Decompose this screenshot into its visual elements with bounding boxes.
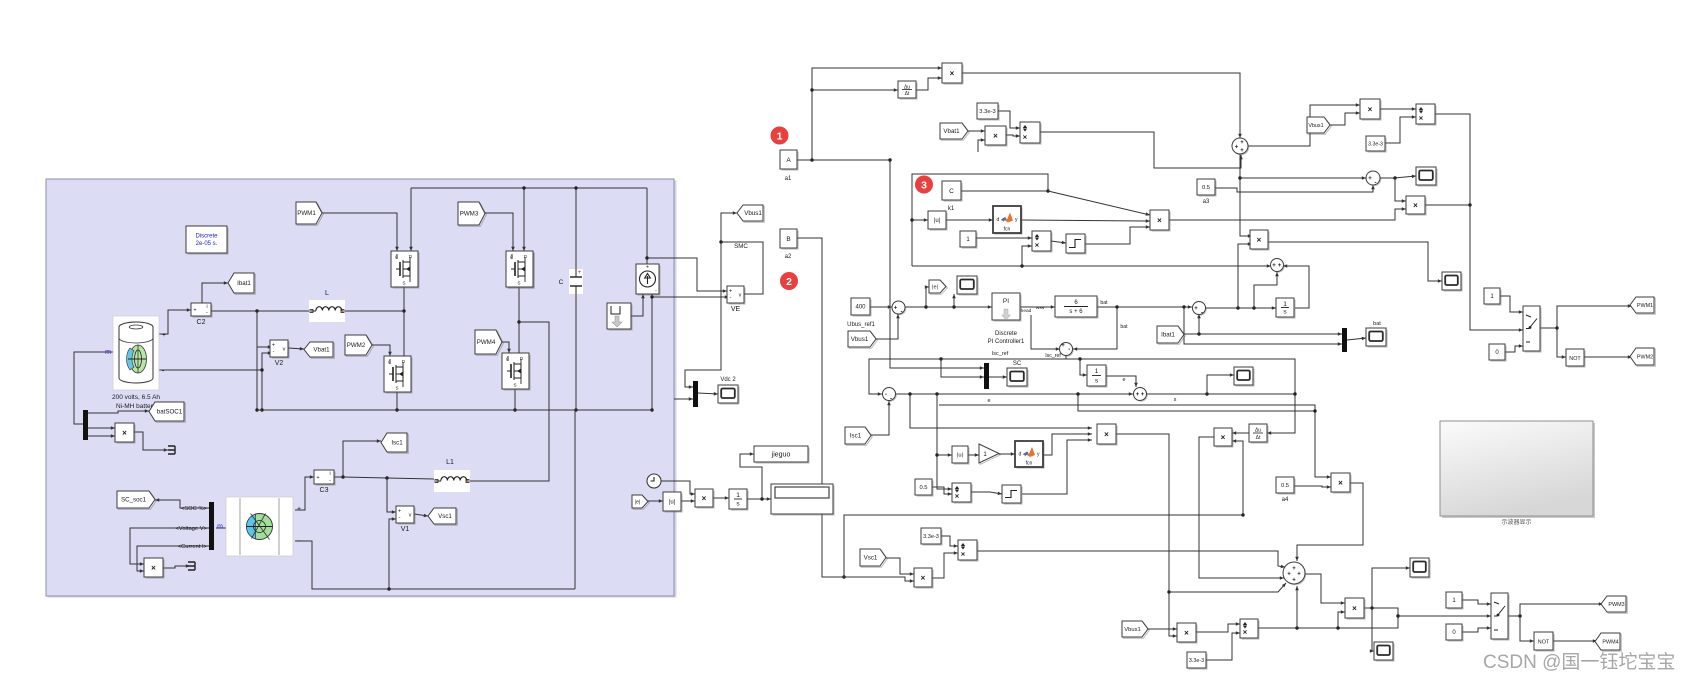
svg-text:L: L (325, 290, 329, 297)
svg-text:+: + (578, 270, 582, 276)
svg-text:+: + (1240, 148, 1244, 154)
svg-text:+: + (1194, 306, 1198, 312)
svg-text:CSDN @国一钰坨宝宝: CSDN @国一钰坨宝宝 (1483, 651, 1675, 673)
svg-text:×: × (702, 494, 707, 503)
svg-text:-: - (399, 515, 401, 521)
svg-text:0.5: 0.5 (1202, 185, 1210, 191)
svg-text:a3: a3 (1203, 199, 1210, 205)
svg-text:PWM2: PWM2 (347, 342, 366, 349)
svg-text:×: × (1368, 105, 1373, 114)
svg-text:+: + (1141, 392, 1145, 398)
svg-text:bat: bat (1100, 300, 1108, 306)
svg-text:×: × (1243, 628, 1248, 637)
svg-text:0.5: 0.5 (919, 485, 927, 491)
svg-text:<Current I>: <Current I> (178, 544, 208, 550)
svg-text:0.5: 0.5 (1281, 483, 1289, 489)
svg-text:d: d (997, 217, 1000, 223)
svg-text:-: - (1068, 347, 1070, 353)
svg-text:1: 1 (1283, 301, 1287, 308)
svg-text:×: × (1221, 433, 1226, 442)
svg-text:i: i (329, 471, 330, 477)
svg-text:i: i (206, 304, 207, 310)
svg-text:PWM2: PWM2 (1637, 354, 1653, 360)
svg-text:C2: C2 (197, 319, 206, 326)
svg-text:a1: a1 (785, 176, 792, 182)
svg-text:+: + (297, 506, 301, 513)
svg-text:+: + (646, 265, 649, 271)
svg-text:示波器显示: 示波器显示 (1501, 518, 1531, 526)
svg-text:+: + (162, 333, 166, 339)
svg-text:A: A (786, 157, 791, 164)
svg-text:×: × (1257, 236, 1262, 245)
svg-text:PWM1: PWM1 (297, 210, 316, 217)
svg-text:|e|: |e| (635, 499, 640, 505)
svg-text:+: + (272, 343, 275, 349)
svg-text:d: d (1019, 452, 1022, 458)
svg-text:PWM3: PWM3 (1608, 602, 1624, 608)
svg-text:s + 6: s + 6 (1069, 309, 1083, 315)
svg-text:200 volts, 6.5 Ah: 200 volts, 6.5 Ah (112, 394, 160, 401)
svg-text:a2: a2 (785, 254, 792, 260)
svg-text:3.3e-3: 3.3e-3 (1189, 658, 1204, 664)
svg-text:-: - (890, 396, 892, 402)
svg-text:×: × (122, 429, 127, 438)
svg-text:×: × (993, 132, 998, 141)
svg-text:3.3e-3: 3.3e-3 (1368, 141, 1383, 147)
svg-text:×: × (950, 69, 955, 78)
svg-text:-: - (885, 392, 887, 398)
svg-text:+: + (1061, 343, 1065, 349)
svg-text:PWM4: PWM4 (477, 339, 496, 346)
svg-text:bat: bat (1120, 324, 1128, 330)
svg-text:Vsc1: Vsc1 (864, 555, 878, 562)
svg-text:2: 2 (786, 276, 792, 288)
svg-text:k1: k1 (948, 206, 955, 212)
svg-text:fcn: fcn (1026, 461, 1033, 467)
svg-text:+: + (1292, 566, 1296, 572)
svg-text:NOT: NOT (1569, 356, 1581, 362)
svg-text:s: s (1174, 397, 1177, 403)
svg-text:VE: VE (731, 306, 741, 313)
svg-text:Vbus1: Vbus1 (1124, 627, 1140, 633)
svg-text:×: × (1419, 114, 1424, 123)
svg-text:Ibat1: Ibat1 (237, 280, 251, 287)
svg-text:Isc_ref: Isc_ref (992, 351, 1009, 357)
svg-text:wss: wss (1036, 306, 1045, 311)
svg-text:+: + (1235, 145, 1239, 151)
svg-text:<SOC %>: <SOC %> (181, 506, 208, 512)
svg-text:+: + (729, 289, 732, 295)
svg-text:Ubus_ref1: Ubus_ref1 (847, 322, 875, 328)
svg-text:Isc1: Isc1 (850, 433, 862, 440)
svg-text:S: S (395, 386, 398, 391)
svg-text:L1: L1 (446, 459, 454, 466)
svg-text:+: + (1292, 578, 1296, 584)
svg-text:Vsc1: Vsc1 (438, 513, 452, 520)
svg-text:-: - (1375, 181, 1377, 187)
svg-text:bat: bat (1373, 321, 1381, 327)
svg-text:×: × (1023, 133, 1028, 142)
svg-text:1: 1 (777, 130, 783, 142)
svg-text:+: + (1287, 572, 1291, 578)
svg-text:m: m (105, 349, 111, 356)
svg-text:Vbus1: Vbus1 (1308, 123, 1323, 129)
svg-text:PI: PI (1003, 298, 1009, 305)
svg-text:Isc_ref: Isc_ref (1045, 353, 1061, 359)
svg-text:+: + (1240, 140, 1244, 146)
svg-text:Δt: Δt (905, 91, 910, 97)
svg-text:+: + (1278, 263, 1282, 269)
svg-text:×: × (1352, 604, 1357, 613)
svg-text:NOT: NOT (1538, 639, 1550, 645)
svg-text:m: m (217, 524, 223, 531)
svg-text:-: - (206, 310, 208, 316)
svg-text:3.3e-3: 3.3e-3 (923, 534, 939, 540)
svg-text:Ibat1: Ibat1 (1161, 332, 1175, 339)
svg-text:SMC: SMC (734, 243, 748, 250)
svg-text:Isc1: Isc1 (391, 440, 403, 447)
svg-text:×: × (1035, 241, 1040, 250)
svg-text:e: e (987, 398, 990, 404)
svg-text:×: × (961, 550, 966, 559)
svg-text:1: 1 (983, 451, 987, 458)
svg-text:1: 1 (736, 492, 740, 499)
svg-text:Vbus1: Vbus1 (744, 210, 762, 217)
svg-text:Vbat1: Vbat1 (943, 128, 960, 135)
svg-text:+: + (316, 475, 319, 481)
svg-text:fcn: fcn (1004, 227, 1011, 233)
svg-text:+: + (1272, 263, 1276, 269)
svg-text:×: × (1157, 216, 1162, 225)
svg-text:+: + (1297, 572, 1301, 578)
svg-text:<Voltage V>: <Voltage V> (175, 526, 207, 532)
svg-text:-: - (901, 310, 903, 316)
svg-text:×: × (1338, 479, 1343, 488)
svg-text:×: × (921, 574, 926, 583)
svg-text:Vbat1: Vbat1 (313, 347, 330, 354)
svg-text:PWM1: PWM1 (1637, 303, 1653, 309)
svg-text:jieguo: jieguo (771, 451, 791, 458)
svg-text:×: × (955, 492, 960, 501)
svg-text:v: v (739, 293, 742, 299)
svg-text:head: head (1021, 308, 1032, 314)
svg-text:|u|: |u| (957, 453, 963, 459)
svg-text:Discrete: Discrete (995, 331, 1018, 337)
svg-text:S: S (513, 383, 516, 388)
svg-text:B: B (786, 236, 790, 243)
svg-text:-: - (1201, 310, 1203, 316)
svg-text:×: × (1184, 629, 1189, 638)
svg-text:V1: V1 (401, 526, 410, 533)
svg-text:|u|: |u| (669, 500, 676, 506)
svg-text:+: + (193, 308, 196, 314)
svg-text:|u|: |u| (934, 218, 941, 224)
svg-text:|e|: |e| (932, 284, 938, 290)
svg-text:1: 1 (1095, 368, 1099, 375)
svg-text:2e-05 s.: 2e-05 s. (196, 241, 218, 247)
svg-text:3.3e-3: 3.3e-3 (979, 109, 995, 115)
svg-text:S: S (517, 281, 520, 286)
svg-text:-: - (273, 349, 275, 355)
svg-text:SC: SC (1013, 361, 1022, 367)
svg-text:Vbus1: Vbus1 (851, 336, 869, 343)
svg-text:Δt: Δt (1256, 435, 1261, 441)
svg-text:Vdc 2: Vdc 2 (720, 377, 736, 383)
svg-text:SC_soc1: SC_soc1 (121, 497, 147, 504)
svg-text:Discrete: Discrete (195, 234, 218, 240)
svg-text:v: v (409, 513, 412, 519)
svg-text:+: + (398, 509, 401, 515)
svg-text:e: e (1122, 377, 1125, 383)
svg-text:PWM4: PWM4 (1602, 639, 1618, 645)
svg-text:−: − (297, 538, 301, 545)
svg-text:3: 3 (921, 179, 927, 191)
svg-text:C3: C3 (320, 487, 329, 494)
svg-text:v: v (283, 347, 286, 353)
svg-text:+: + (1136, 392, 1140, 398)
svg-text:×: × (1413, 201, 1418, 210)
svg-text:C: C (559, 279, 564, 286)
svg-text:400: 400 (855, 305, 866, 311)
svg-text:PWM3: PWM3 (460, 211, 479, 218)
svg-text:PI Controller1: PI Controller1 (988, 339, 1025, 345)
svg-text:+: + (1368, 176, 1372, 182)
svg-text:V2: V2 (275, 360, 284, 367)
svg-text:+: + (894, 306, 898, 312)
svg-text:batSOC1: batSOC1 (157, 409, 183, 416)
svg-text:-: - (329, 478, 331, 484)
svg-text:×: × (151, 564, 156, 573)
svg-text:S: S (402, 281, 405, 286)
svg-text:-: - (730, 295, 732, 301)
svg-text:C: C (949, 188, 954, 195)
svg-text:×: × (1104, 430, 1109, 439)
svg-text:a4: a4 (1282, 497, 1289, 503)
